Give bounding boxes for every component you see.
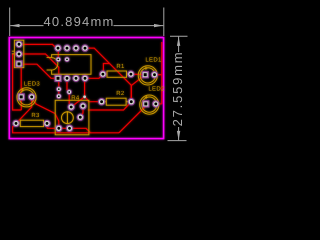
horizontal dimension extension line left	[9, 8, 11, 37]
vertical dimension line	[178, 37, 180, 52]
dimension arrow left	[10, 24, 19, 27]
vertical dimension bottom tick	[168, 140, 187, 142]
svg-text:27.559mm: 27.559mm	[170, 51, 185, 127]
vertical dimension arrow down	[177, 131, 180, 140]
vertical dimension arrow up	[177, 37, 180, 46]
horizontal dimension line	[10, 25, 43, 27]
dimension arrow right	[154, 24, 163, 27]
vertical dimension top tick	[170, 35, 188, 37]
horizontal dimension extension line right	[163, 8, 165, 37]
svg-text:40.894mm: 40.894mm	[43, 14, 114, 29]
